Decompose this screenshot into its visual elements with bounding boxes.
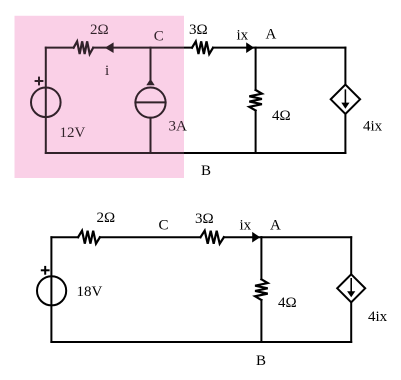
svg-text:4Ω: 4Ω bbox=[278, 295, 297, 311]
4ohm branch wire lower (bottom circuit) bbox=[260, 300, 262, 342]
pink highlight overlay (tints circuit lines inside) bbox=[15, 16, 185, 178]
wire node C to 3ohm bbox=[151, 47, 193, 49]
dependent source 4ix diamond (top circuit) bbox=[331, 85, 360, 114]
svg-text:ix: ix bbox=[240, 218, 252, 234]
svg-text:4ix: 4ix bbox=[363, 119, 383, 135]
right wire lower from diamond (bottom circuit) bbox=[350, 302, 352, 342]
wire top-left segment bbox=[46, 47, 74, 49]
current source 3A circle bbox=[135, 88, 165, 118]
arrowhead current i (left-pointing) bbox=[105, 42, 114, 53]
right wire upper to diamond bbox=[344, 48, 346, 85]
arrowhead inside diamond (down, top circuit) bbox=[341, 103, 349, 109]
resistor 2ohm (bottom) bbox=[78, 231, 100, 244]
resistor 4ohm vertical (bottom circuit) bbox=[255, 279, 268, 300]
arrowhead of 3A source (up) bbox=[146, 79, 154, 85]
plus sign of 12V bbox=[36, 80, 43, 82]
4ohm branch wire lower (top circuit) bbox=[255, 111, 257, 154]
voltage source 18V circle bbox=[37, 276, 66, 305]
4ohm branch wire upper (bottom circuit) bbox=[260, 237, 262, 279]
svg-text:A: A bbox=[266, 27, 277, 43]
right wire upper to diamond (bottom circuit) bbox=[350, 237, 352, 274]
left wire with 18V source bbox=[50, 237, 52, 342]
svg-text:3Ω: 3Ω bbox=[195, 211, 214, 227]
wire resistor to node C bbox=[93, 47, 150, 49]
svg-text:4ix: 4ix bbox=[368, 309, 388, 325]
wire node A to top-right corner (bottom) bbox=[261, 236, 351, 238]
svg-text:2Ω: 2Ω bbox=[97, 210, 116, 226]
wire 2ohm to 3ohm (bottom) bbox=[100, 236, 201, 238]
resistor 3ohm (bottom) bbox=[201, 231, 224, 244]
right wire lower from diamond bbox=[344, 114, 346, 153]
voltage source V 12V circle bbox=[31, 88, 61, 118]
bottom wire (top circuit) bbox=[46, 152, 346, 154]
svg-text:A: A bbox=[270, 218, 281, 234]
svg-text:4Ω: 4Ω bbox=[272, 108, 291, 124]
svg-text:B: B bbox=[256, 353, 266, 369]
svg-text:18V: 18V bbox=[77, 284, 103, 300]
3A branch wire upper bbox=[150, 48, 152, 80]
svg-text:ix: ix bbox=[237, 28, 249, 44]
resistor 4ohm vertical (top circuit) bbox=[249, 90, 262, 111]
wire top-left segment (bottom circuit) bbox=[51, 236, 78, 238]
3A branch wire lower bbox=[150, 118, 152, 153]
arrowhead ix (right-pointing, bottom circuit) bbox=[252, 232, 260, 243]
svg-text:B: B bbox=[201, 163, 211, 179]
highlight rectangle (pink) bbox=[15, 16, 185, 178]
bottom wire (bottom circuit) bbox=[51, 341, 351, 343]
plus sign of 18V bbox=[42, 269, 49, 271]
arrow shaft inside diamond (bottom) bbox=[350, 279, 352, 292]
arrowhead ix (right-pointing, top circuit) bbox=[246, 42, 254, 53]
svg-text:C: C bbox=[159, 218, 169, 234]
svg-text:3Ω: 3Ω bbox=[189, 22, 208, 38]
wire 3ohm to node A (bottom) bbox=[224, 236, 262, 238]
wire 3ohm to node A bbox=[213, 47, 256, 49]
dependent source 4ix diamond (bottom circuit) bbox=[337, 274, 365, 302]
wire node A to top-right corner bbox=[256, 47, 346, 49]
arrow shaft inside diamond bbox=[344, 90, 346, 103]
left wire with 12V source bbox=[45, 48, 47, 153]
arrowhead inside diamond (down, bottom circuit) bbox=[347, 291, 355, 297]
chord of 3A source bbox=[135, 101, 165, 103]
4ohm branch wire upper (top circuit) bbox=[255, 48, 257, 90]
resistor R 2ohm (top) bbox=[74, 41, 94, 54]
resistor 3ohm (top) bbox=[192, 41, 213, 54]
